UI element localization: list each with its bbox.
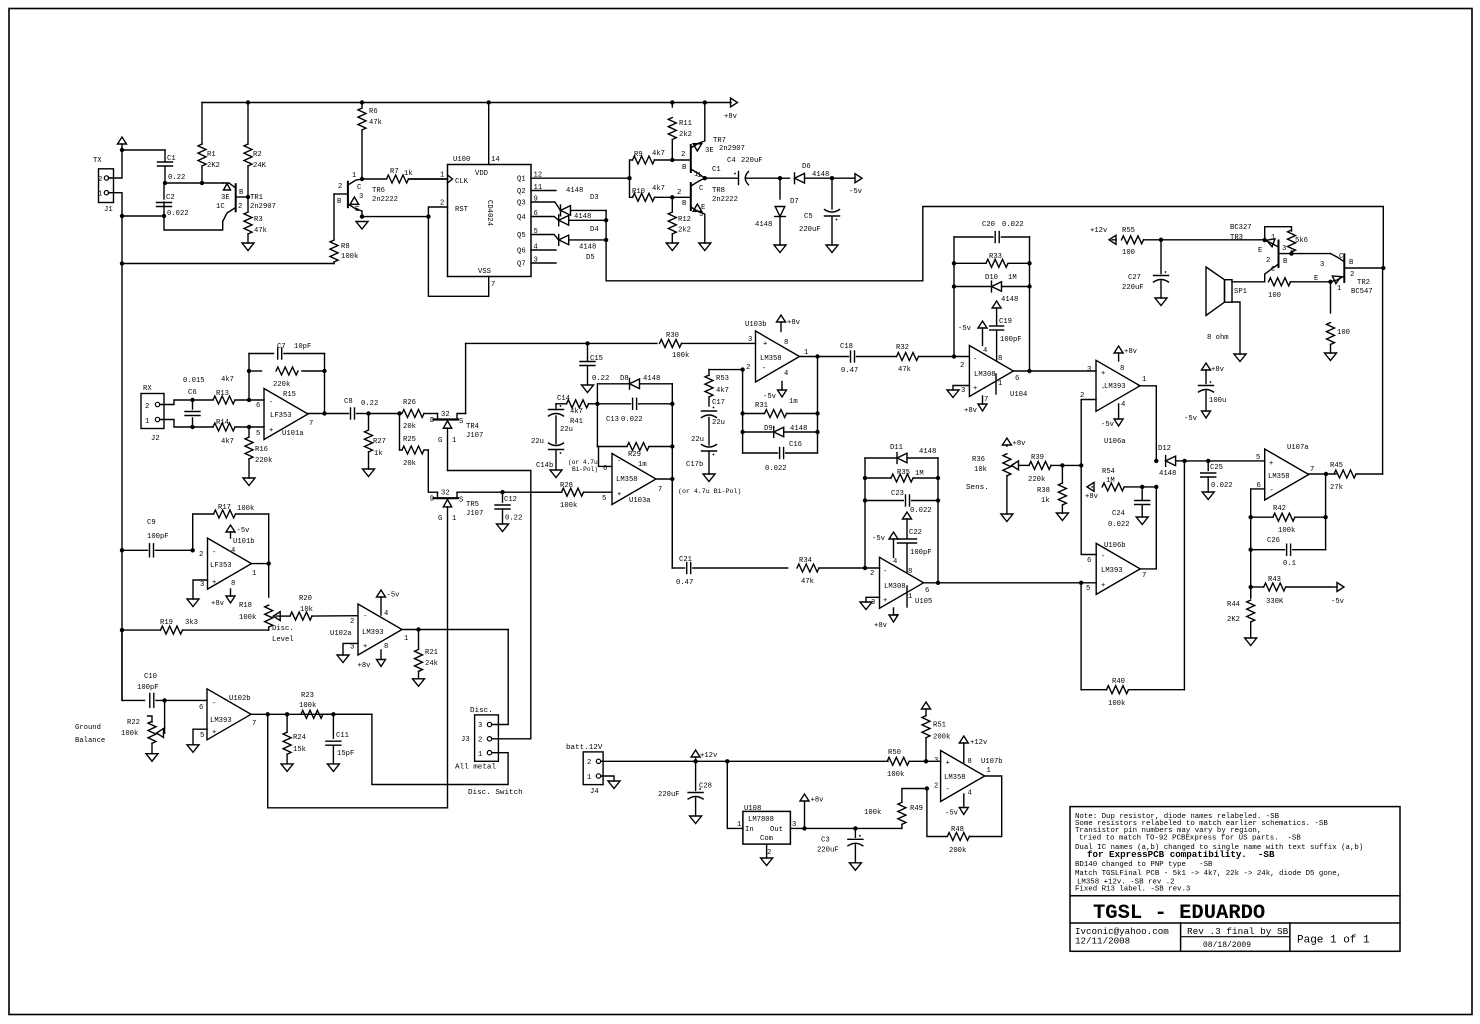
svg-text:R40: R40 [1112,678,1125,686]
wiper R36 [1012,461,1030,470]
svg-text:R2: R2 [253,151,262,159]
svg-text:B: B [682,164,687,172]
svg-text:100k: 100k [1108,700,1125,708]
node R35 right [936,476,940,480]
ground C3 [849,863,861,871]
ground R38 [1056,513,1068,521]
svg-text:20k: 20k [403,460,416,468]
resistor R38 1k [1037,465,1066,513]
node C26 left [1249,548,1253,552]
svg-text:-5v: -5v [872,535,886,543]
wire collector loop [164,216,223,230]
svg-text:LM358: LM358 [616,476,638,484]
node D9 right [815,430,819,434]
wire U108 com gnd [766,844,768,858]
svg-text:4148: 4148 [755,221,772,229]
node U107b pin3 [924,759,928,763]
op-amp U103a LM358 [602,454,662,506]
svg-text:2: 2 [338,183,342,191]
svg-text:0.47: 0.47 [676,579,693,587]
svg-text:1: 1 [587,774,591,782]
svg-text:TR8: TR8 [712,187,725,195]
svg-text:+: + [1101,370,1105,378]
svg-text:Level: Level [272,636,294,644]
wire J3 pin2 [492,738,531,740]
pot R22 100k Ground Balance [121,716,156,754]
svg-text:R14: R14 [216,419,229,427]
svg-text:LF353: LF353 [210,562,232,570]
svg-text:3: 3 [200,581,204,589]
svg-text:D7: D7 [790,198,799,206]
svg-text:4148: 4148 [566,187,583,195]
svg-text:R41: R41 [570,418,583,426]
svg-text:TR5: TR5 [466,501,479,509]
svg-text:Disc.: Disc. [470,707,493,715]
node C2 bottom [162,214,166,218]
op-amp U102a LM393 [330,604,408,655]
ground R27 [363,469,375,477]
svg-text:7: 7 [658,486,662,494]
capacitor C18 0.47 [840,343,897,375]
svg-text:+8v: +8v [787,319,801,327]
pot R36 10k Sens [966,438,1026,514]
ground U104 pin3 [947,386,969,398]
svg-text:100k: 100k [121,730,138,738]
node U105 pin2 [863,566,867,570]
wire TR6 base down [333,194,335,240]
svg-text:100: 100 [1337,329,1350,337]
node R33 left [952,261,956,265]
svg-text:2: 2 [1266,257,1270,265]
wire TX bottom to C2 [122,215,164,217]
svg-text:-5v: -5v [237,527,251,535]
svg-text:+8v: +8v [724,113,738,121]
svg-text:D11: D11 [890,444,903,452]
svg-text:200k: 200k [933,734,950,742]
node R33 right [1027,261,1031,265]
node C27 top [1159,238,1163,242]
resistor R44 2K2 [1227,587,1255,638]
wire Q2 stub [531,190,556,192]
svg-text:+: + [617,491,621,499]
svg-text:for ExpressPCB compatibility.: for ExpressPCB compatibility. -SB [1087,849,1275,860]
svg-text:R12: R12 [678,216,691,224]
node TX R8 row [120,261,124,265]
wire U102b out [251,713,372,715]
ground C25 [1202,492,1214,500]
node R38 top [1060,463,1064,467]
svg-text:J107: J107 [466,510,483,518]
svg-text:U106a: U106a [1104,438,1126,446]
svg-text:+: + [946,760,950,768]
capacitor C19 100pF [990,296,1022,361]
-5v U106a [1101,404,1123,429]
op-amp U103b LM358 [745,321,808,382]
wire C20 left vert [953,237,955,357]
svg-text:R11: R11 [679,120,692,128]
svg-text:3: 3 [699,211,703,219]
ground C12 [497,524,509,532]
ground R16 [243,478,255,486]
svg-text:220uF: 220uF [741,157,763,165]
svg-text:D3: D3 [590,194,599,202]
wire +12v row [601,760,888,762]
ground TR6 [356,222,368,230]
svg-text:(or 4.7u Bi-Pol): (or 4.7u Bi-Pol) [678,488,741,495]
wire TR4 gate row [448,471,531,738]
resistor R20 10k [290,595,358,620]
resistor R9 [630,150,673,178]
svg-text:J107: J107 [466,432,483,440]
svg-text:R6: R6 [369,108,378,116]
svg-text:7: 7 [984,396,988,404]
connector J3 [455,707,523,797]
wire TR2 emitter down [1330,282,1332,313]
node rail-R11 [670,100,674,104]
svg-text:4k7: 4k7 [652,185,665,193]
node TR2 emitter [1328,280,1332,284]
node R31 left [740,411,744,415]
svg-text:U107b: U107b [981,758,1003,766]
svg-text:B: B [1283,258,1288,266]
svg-text:BC547: BC547 [1351,288,1373,296]
wire J1 pin2 up [111,150,123,178]
node rail-R2 [246,100,250,104]
node rail-VDD [487,100,491,104]
wire R17 left vert [192,514,194,550]
svg-text:-5v: -5v [1101,421,1115,429]
svg-text:1k: 1k [1041,497,1050,505]
svg-text:U105: U105 [915,598,932,606]
resistor R53 4k7 [705,370,729,406]
svg-text:R18: R18 [239,602,252,610]
wire J2 pin2 [162,400,213,405]
capacitor C7 10pF [249,343,325,359]
node rail-R6 [360,100,364,104]
svg-text:0.022: 0.022 [1211,482,1233,490]
wire RST-VSS loop [428,207,488,296]
svg-text:2: 2 [1350,271,1354,279]
svg-text:VSS: VSS [478,268,491,276]
svg-text:-: - [363,613,367,621]
svg-text:+: + [269,427,273,435]
wire R23 right loop [372,714,508,784]
node R29 right [670,444,674,448]
ground C27 [1155,298,1167,306]
svg-text:C28: C28 [699,783,712,791]
node TX bottom [120,214,124,218]
svg-text:3: 3 [1282,245,1286,253]
svg-text:E: E [355,206,359,214]
ground C28 [690,816,702,824]
svg-text:1: 1 [1142,376,1146,384]
resistor R29 1m [597,443,672,470]
ground U105 pin3 [860,597,880,609]
svg-text:Rev .3 final by SB: Rev .3 final by SB [1187,926,1289,937]
svg-text:220k: 220k [1028,476,1045,484]
capacitor C4 220uF [727,157,763,185]
svg-text:3: 3 [1320,261,1324,269]
svg-text:C8: C8 [344,398,353,406]
node R35 left [863,476,867,480]
svg-text:C22: C22 [909,529,922,537]
wire C9 row [122,549,148,551]
svg-text:Sens.: Sens. [966,484,989,492]
diode D4 [559,213,599,234]
wire Q7 stub [531,262,556,264]
svg-text:-5v: -5v [387,592,401,600]
capacitor C14b 22u [531,438,598,473]
svg-text:100k: 100k [672,352,689,360]
svg-text:4k7: 4k7 [716,387,729,395]
wire J1 pin1 down [111,193,123,216]
svg-text:-: - [973,356,977,364]
capacitor C24 0.022 [1108,487,1150,529]
svg-text:B: B [1349,259,1354,267]
svg-text:1: 1 [404,635,408,643]
node 5k6 bottom [1289,251,1293,255]
wire TR5 source row [466,491,562,493]
wire D3 to bus [571,209,607,211]
+12v arrow U107b [959,736,988,763]
svg-text:R54: R54 [1102,468,1115,476]
wire collector to C4 [705,177,739,179]
svg-text:Fixed R13 label. -SB rev.3: Fixed R13 label. -SB rev.3 [1075,886,1190,894]
svg-text:S: S [459,418,463,426]
wire Q1 out [531,177,630,179]
svg-text:-: - [617,458,621,466]
wire pin5 down [1080,583,1082,690]
text ground balance [75,724,105,745]
node R1 bottom [200,181,204,185]
node C11 top [331,712,335,716]
svg-text:2k2: 2k2 [678,227,691,235]
svg-text:D4: D4 [590,226,599,234]
svg-text:1: 1 [452,515,456,523]
svg-text:24k: 24k [425,660,438,668]
svg-text:C17: C17 [712,399,725,407]
svg-text:100k: 100k [560,502,577,510]
svg-text:2K2: 2K2 [207,162,220,170]
svg-text:R17: R17 [218,504,231,512]
resistor R50 100k [887,749,941,779]
svg-text:1m: 1m [638,461,647,469]
svg-text:8: 8 [384,643,388,651]
svg-text:4k7: 4k7 [221,376,234,384]
svg-text:D12: D12 [1158,445,1171,453]
pin1 stub U105 [906,586,908,607]
node C23 right [936,498,940,502]
svg-text:R44: R44 [1227,601,1240,609]
resistor R26 20k [402,399,438,431]
wire U105 out long [938,582,1096,584]
resistor R23 100k [299,692,372,718]
wire Q6 stub [531,249,556,251]
svg-text:B: B [682,200,687,208]
svg-text:-: - [269,399,273,407]
capacitor C5 220uF [799,178,840,245]
svg-text:1M: 1M [915,470,924,478]
svg-text:0.22: 0.22 [168,174,185,182]
svg-text:Q4: Q4 [517,214,526,222]
node U102b out1 [266,712,270,716]
wire disc switch loop [268,714,448,808]
svg-text:2: 2 [960,362,964,370]
wire R40 up [1183,461,1185,690]
svg-text:1m: 1m [789,398,798,406]
svg-text:15k: 15k [293,746,306,754]
svg-text:R1: R1 [207,151,216,159]
svg-text:+8v: +8v [1211,366,1225,374]
svg-text:Disc.: Disc. [272,625,294,633]
svg-text:C: C [357,184,362,192]
node TR3 emitter [1263,238,1267,242]
op-amp U106b LM393 [1086,542,1146,594]
+8v arrow R54 [1085,482,1099,501]
svg-text:LM7808: LM7808 [748,816,774,824]
capacitor C25 0.022 [1201,461,1233,492]
svg-text:22u: 22u [531,438,544,446]
wire D5 to bus [569,239,606,241]
svg-text:4: 4 [1121,401,1125,409]
wire VDD [488,103,490,165]
svg-text:D: D [430,417,434,425]
resistor R8 [330,240,358,264]
node C9 left [120,548,124,552]
pin1 stub U104 [995,374,997,394]
capacitor C23 0.022 [865,490,938,515]
svg-text:7: 7 [252,720,256,728]
svg-text:0.022: 0.022 [621,416,643,424]
transistor TR2 BC547 [1314,253,1383,296]
svg-text:U103b: U103b [745,321,767,329]
svg-text:2: 2 [677,189,681,197]
svg-text:-: - [1101,553,1105,561]
wire TR4 top row [466,342,657,344]
svg-text:2: 2 [238,203,242,211]
svg-text:C: C [1271,266,1276,274]
node R26 R25 split [397,411,401,415]
resistor R21 24k [415,630,438,679]
svg-text:TR3: TR3 [1230,234,1243,242]
node U102a out [416,627,420,631]
+12v arrow J4 [691,750,718,761]
svg-text:8: 8 [1120,365,1124,373]
capacitor 100u [1184,363,1226,423]
svg-text:R9: R9 [634,151,643,159]
svg-text:R43: R43 [1268,576,1281,584]
svg-text:R23: R23 [301,692,314,700]
svg-text:6: 6 [925,587,929,595]
wire C7R15 right [324,354,326,414]
node RST junction [426,214,430,218]
svg-text:R22: R22 [127,719,140,727]
diode D3 [561,187,599,216]
node C12 top [500,490,504,494]
node bus D4 [604,218,608,222]
node U105 out [936,581,940,585]
capacitor C8 0.22 [344,398,378,419]
svg-text:R27: R27 [373,438,386,446]
svg-text:R3: R3 [254,216,263,224]
svg-text:R30: R30 [666,332,679,340]
wire R45 right up [1382,268,1384,474]
svg-text:R53: R53 [716,375,729,383]
wire U101a out [308,413,349,415]
resistor R17 100k [193,504,269,518]
svg-text:5k6: 5k6 [1295,237,1308,245]
svg-text:1: 1 [737,821,741,829]
op-amp U104 LM308 [960,346,1027,405]
svg-text:R33: R33 [989,253,1002,261]
svg-text:2: 2 [98,176,102,184]
svg-text:BC327: BC327 [1230,224,1252,232]
svg-text:D9: D9 [764,425,773,433]
svg-text:LM393: LM393 [1104,383,1126,391]
svg-text:R26: R26 [403,399,416,407]
resistor R40 100k [1081,678,1184,708]
svg-text:4148: 4148 [1159,470,1176,478]
resistor R3 [244,197,267,243]
resistor R33 [954,253,1030,267]
wire U106b out [1140,487,1156,569]
node R19 left [120,628,124,632]
capacitor C12 0.22 [495,492,522,524]
wire out down to R18 [268,564,270,598]
svg-text:10k: 10k [974,466,987,474]
svg-text:12/11/2008: 12/11/2008 [1075,936,1130,947]
svg-text:2: 2 [870,570,874,578]
svg-text:-5v: -5v [1331,598,1345,606]
svg-text:2: 2 [746,364,750,372]
svg-text:+12v: +12v [1090,227,1108,235]
title text [1093,902,1265,925]
svg-text:C19: C19 [999,318,1012,326]
svg-text:TGSL - EDUARDO: TGSL - EDUARDO [1093,902,1265,925]
node R43 left [1249,585,1253,589]
svg-text:C23: C23 [891,490,904,498]
svg-text:LM393: LM393 [1101,567,1123,575]
svg-text:R36: R36 [972,456,985,464]
svg-text:VDD: VDD [475,170,488,178]
svg-text:2: 2 [767,849,771,857]
svg-text:2: 2 [587,759,591,767]
svg-text:1: 1 [252,570,256,578]
svg-text:100pF: 100pF [137,684,159,692]
svg-text:22u: 22u [691,436,704,444]
connector J1 TX [93,157,114,214]
svg-text:4148: 4148 [919,448,936,456]
ground C17b [703,474,715,482]
op-amp U105 LM308 [870,557,932,622]
resistor R11 [668,103,692,161]
node D9 left [740,430,744,434]
wire R9 to TR7 base [672,159,691,161]
wire C10 row [122,630,145,700]
svg-text:R49: R49 [910,805,923,813]
svg-text:Q3: Q3 [517,200,526,208]
svg-text:2: 2 [934,783,938,791]
svg-text:C25: C25 [1210,464,1223,472]
svg-text:R48: R48 [951,826,964,834]
svg-text:3: 3 [478,722,482,730]
capacitor C14 22u [549,395,573,444]
svg-text:2: 2 [681,151,685,159]
svg-text:R29: R29 [628,451,641,459]
IC U108 LM7808 [737,805,796,857]
resistor R35 1M [865,469,938,482]
svg-text:100k: 100k [864,809,881,817]
